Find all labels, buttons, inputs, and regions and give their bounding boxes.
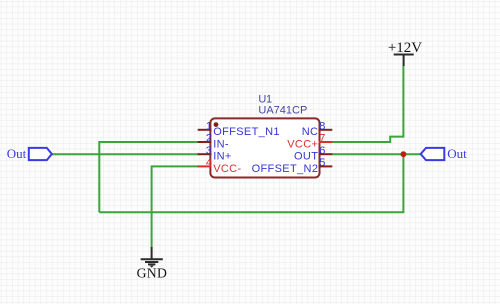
svg-text:6: 6 — [319, 145, 325, 157]
svg-text:Out: Out — [447, 146, 467, 161]
svg-text:VCC+: VCC+ — [287, 138, 318, 150]
svg-text:+12V: +12V — [388, 40, 422, 56]
svg-text:UA741CP: UA741CP — [258, 105, 307, 117]
power symbol +12V — [394, 55, 414, 67]
wire: left Out to pin 3 (IN+) — [52, 153, 199, 155]
wire: pin 6 (OUT) to right Out flag — [332, 153, 421, 155]
wire: right vertical from junction down — [402, 154, 404, 213]
svg-text:GND: GND — [137, 266, 168, 281]
pin 1 stub — [198, 129, 212, 131]
svg-text:5: 5 — [319, 157, 325, 169]
svg-text:OFFSET_N1: OFFSET_N1 — [213, 126, 280, 138]
svg-text:OUT: OUT — [294, 151, 318, 163]
pin 1 marker dot — [214, 122, 219, 127]
svg-text:Out: Out — [7, 146, 27, 161]
net flag Out (right) — [421, 146, 467, 161]
ground symbol — [141, 247, 163, 264]
svg-text:IN-: IN- — [213, 138, 229, 150]
pin 3 stub — [198, 153, 212, 155]
svg-text:7: 7 — [319, 133, 325, 145]
wire: pin 2 (IN-) horizontal — [99, 141, 199, 143]
svg-text:VCC-: VCC- — [213, 163, 241, 175]
svg-text:NC: NC — [302, 126, 319, 138]
svg-text:2: 2 — [206, 133, 212, 145]
svg-text:IN+: IN+ — [213, 151, 231, 163]
wire: left vertical feedback — [98, 141, 100, 212]
svg-text:OFFSET_N2: OFFSET_N2 — [252, 163, 319, 175]
pin 7 stub (power) — [319, 141, 333, 143]
pin 8 stub — [319, 129, 333, 131]
pin 2 stub — [198, 141, 212, 143]
junction dot at OUT node — [401, 151, 407, 157]
wire: bottom feedback horizontal — [99, 211, 403, 213]
pin 4 stub (power) — [198, 165, 212, 167]
op-amp U1 body — [210, 118, 319, 177]
svg-text:1: 1 — [206, 120, 212, 132]
pin 6 stub — [319, 153, 333, 155]
svg-text:3: 3 — [206, 145, 212, 157]
svg-text:4: 4 — [206, 157, 212, 169]
net flag Out (left) — [7, 146, 52, 161]
pin 5 stub — [319, 165, 333, 167]
wire: pin 7 (VCC+) jog to +12V — [332, 66, 403, 143]
wire: pin 4 (VCC-) to GND — [152, 166, 199, 247]
svg-text:8: 8 — [319, 120, 325, 132]
